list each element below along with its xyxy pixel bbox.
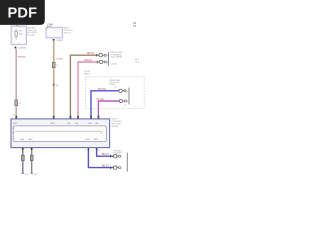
svg-text:(BCM): (BCM) bbox=[112, 126, 119, 128]
pin square C4 bbox=[125, 100, 127, 102]
svg-text:4: 4 bbox=[107, 55, 108, 57]
svg-text:C3: C3 bbox=[114, 86, 116, 88]
junction tick wire R2 bbox=[110, 155, 112, 158]
svg-text:SHLD: SHLD bbox=[84, 74, 90, 76]
svg-text:13-4: 13-4 bbox=[135, 61, 140, 63]
svg-text:13: 13 bbox=[133, 24, 137, 28]
svg-text:MOD 19: MOD 19 bbox=[64, 32, 71, 34]
splice S4 tick on wire W2 bbox=[53, 84, 55, 85]
pin tick wire R2 below module bbox=[96, 148, 98, 150]
pin square C1 bbox=[104, 54, 106, 56]
svg-text:C240A: C240A bbox=[111, 62, 118, 65]
svg-text:RD-TN: RD-TN bbox=[87, 53, 94, 55]
inline connector C240 on wire W2 bbox=[52, 62, 55, 67]
svg-text:4: 4 bbox=[85, 149, 86, 151]
svg-text:BU-OG: BU-OG bbox=[98, 89, 106, 91]
stub after C1 bbox=[102, 54, 104, 56]
module bottom pin labels bbox=[21, 139, 99, 141]
inline connector circle C5 bbox=[114, 155, 117, 158]
wire L1 (shield drain) bbox=[22, 150, 24, 173]
bracket for antenna pins bbox=[128, 88, 130, 105]
inner bus line of module bbox=[15, 131, 102, 134]
GPS module text block bbox=[113, 150, 122, 155]
svg-text:C4: C4 bbox=[25, 174, 29, 176]
SYNC module text block bbox=[111, 52, 124, 65]
wire W2 VT-BN vertical from audio box bbox=[53, 41, 55, 119]
page number text bbox=[133, 21, 137, 28]
svg-text:VT-BN: VT-BN bbox=[56, 59, 63, 61]
junction tick wire W3 bbox=[96, 54, 98, 57]
pin tick wire W3 at module bbox=[70, 116, 72, 119]
svg-text:PDF: PDF bbox=[8, 5, 38, 21]
sheet reference text bbox=[135, 59, 140, 63]
svg-text:BU-VT: BU-VT bbox=[102, 154, 109, 156]
stub after C4 bbox=[123, 100, 125, 102]
svg-text:14: 14 bbox=[13, 115, 15, 117]
pin square C2 bbox=[105, 61, 107, 63]
module top pin labels bbox=[13, 123, 99, 125]
svg-text:MODULE: MODULE bbox=[113, 153, 122, 155]
end terminal wire L2 bbox=[30, 172, 33, 174]
svg-text:1: 1 bbox=[121, 156, 122, 158]
pin tick wire R1 below module bbox=[88, 148, 90, 150]
svg-text:S4: S4 bbox=[56, 85, 59, 87]
bracket for GPS module pins bbox=[126, 153, 128, 172]
PDF badge bbox=[0, 0, 45, 25]
inner connector outline of module bbox=[13, 126, 106, 142]
wire R1 BU-GY (blue lower) bbox=[88, 150, 113, 167]
pin tick wire W6 at module bbox=[98, 116, 100, 119]
inline connector circle C3 bbox=[119, 89, 122, 92]
svg-text:C2280B: C2280B bbox=[18, 48, 26, 50]
stub after C3 bbox=[122, 90, 124, 92]
pin tick wire W1 at module bbox=[15, 116, 17, 119]
stub after C6 bbox=[117, 167, 119, 169]
bracket for SYNC module pins bbox=[107, 52, 109, 66]
module name text block bbox=[112, 119, 123, 128]
inline connector circle C1 bbox=[99, 54, 102, 57]
svg-text:RD-OG: RD-OG bbox=[84, 60, 92, 62]
fuse value labels bbox=[19, 31, 23, 36]
label above connector box C2383 bbox=[47, 24, 54, 28]
module box U1 (BCM) bbox=[11, 119, 110, 148]
text label right of box C2383 bbox=[64, 27, 73, 35]
svg-text:VT-OG: VT-OG bbox=[97, 99, 104, 101]
svg-text:C2: C2 bbox=[56, 65, 60, 67]
text label right of fuse box bbox=[27, 27, 37, 37]
junction tick wire W4 bbox=[96, 61, 98, 64]
svg-text:WH-RD: WH-RD bbox=[18, 57, 26, 59]
svg-text:F15 10A: F15 10A bbox=[27, 34, 35, 37]
svg-text:9: 9 bbox=[127, 91, 128, 93]
pin tick wire W5 at module bbox=[90, 116, 92, 119]
wire R2 BU-VT (blue upper) bbox=[97, 150, 114, 156]
pin C2280B below fuse box bbox=[15, 47, 17, 49]
pin tick wire L2 below module bbox=[31, 148, 33, 150]
pin below box C2383 bbox=[53, 39, 55, 41]
connector box C2383 (audio unit) bbox=[46, 27, 63, 38]
stub after C2 bbox=[103, 61, 105, 63]
svg-text:8: 8 bbox=[127, 101, 128, 103]
inline connector C2280A on wire W1 bbox=[15, 100, 18, 106]
pin square C6 bbox=[119, 167, 121, 169]
wire W5 BU-OG (blue, horiz+vert) bbox=[91, 91, 119, 119]
pin tick wire L1 below module bbox=[22, 148, 24, 150]
connector box C2280 (fuse box) bbox=[11, 26, 26, 45]
stub after C5 bbox=[117, 155, 119, 157]
antenna module name inside dashed box bbox=[110, 79, 122, 86]
svg-text:C2383: C2383 bbox=[56, 40, 63, 42]
pin tick wire W2 at module bbox=[53, 116, 55, 119]
junction tick wire R1 bbox=[110, 166, 112, 169]
inline connector circle C2 bbox=[99, 60, 102, 63]
fuse F15 inside box bbox=[15, 29, 17, 39]
pin square C5 bbox=[119, 155, 121, 157]
svg-text:6: 6 bbox=[107, 62, 108, 64]
svg-text:2: 2 bbox=[121, 168, 122, 170]
svg-text:10A: 10A bbox=[19, 33, 23, 36]
module left internal labels bbox=[12, 128, 15, 134]
svg-text:C2: C2 bbox=[124, 105, 126, 107]
splice label S-100 bbox=[84, 71, 91, 75]
svg-text:BU-GY: BU-GY bbox=[102, 166, 110, 168]
pin square C3 bbox=[124, 90, 126, 92]
wire W1 WH-RD vertical from fuse box bbox=[15, 49, 17, 119]
inline connector circle C4 bbox=[119, 99, 122, 102]
wire W3 RD-TN (brown, horiz+vert) bbox=[70, 55, 99, 119]
svg-text:C2: C2 bbox=[18, 103, 22, 105]
inline connector on wire L1 bbox=[21, 155, 24, 160]
svg-text:C4: C4 bbox=[34, 174, 38, 176]
inline connector circle C6 bbox=[114, 166, 117, 169]
wire W6 VT-OG (violet, horiz+vert) bbox=[98, 101, 119, 119]
svg-text:6: 6 bbox=[98, 150, 99, 152]
pin tick wire W4 at module bbox=[77, 116, 79, 119]
svg-text:MOD (APIM): MOD (APIM) bbox=[111, 56, 123, 59]
inline connector on wire L2 bbox=[30, 155, 33, 160]
end terminal wire L1 bbox=[21, 172, 24, 174]
wire L2 (drain) bbox=[31, 150, 33, 173]
dashed enclosure antenna module bbox=[86, 77, 145, 109]
wire W4 RD-OG (pink, horiz+vert) bbox=[78, 62, 99, 119]
